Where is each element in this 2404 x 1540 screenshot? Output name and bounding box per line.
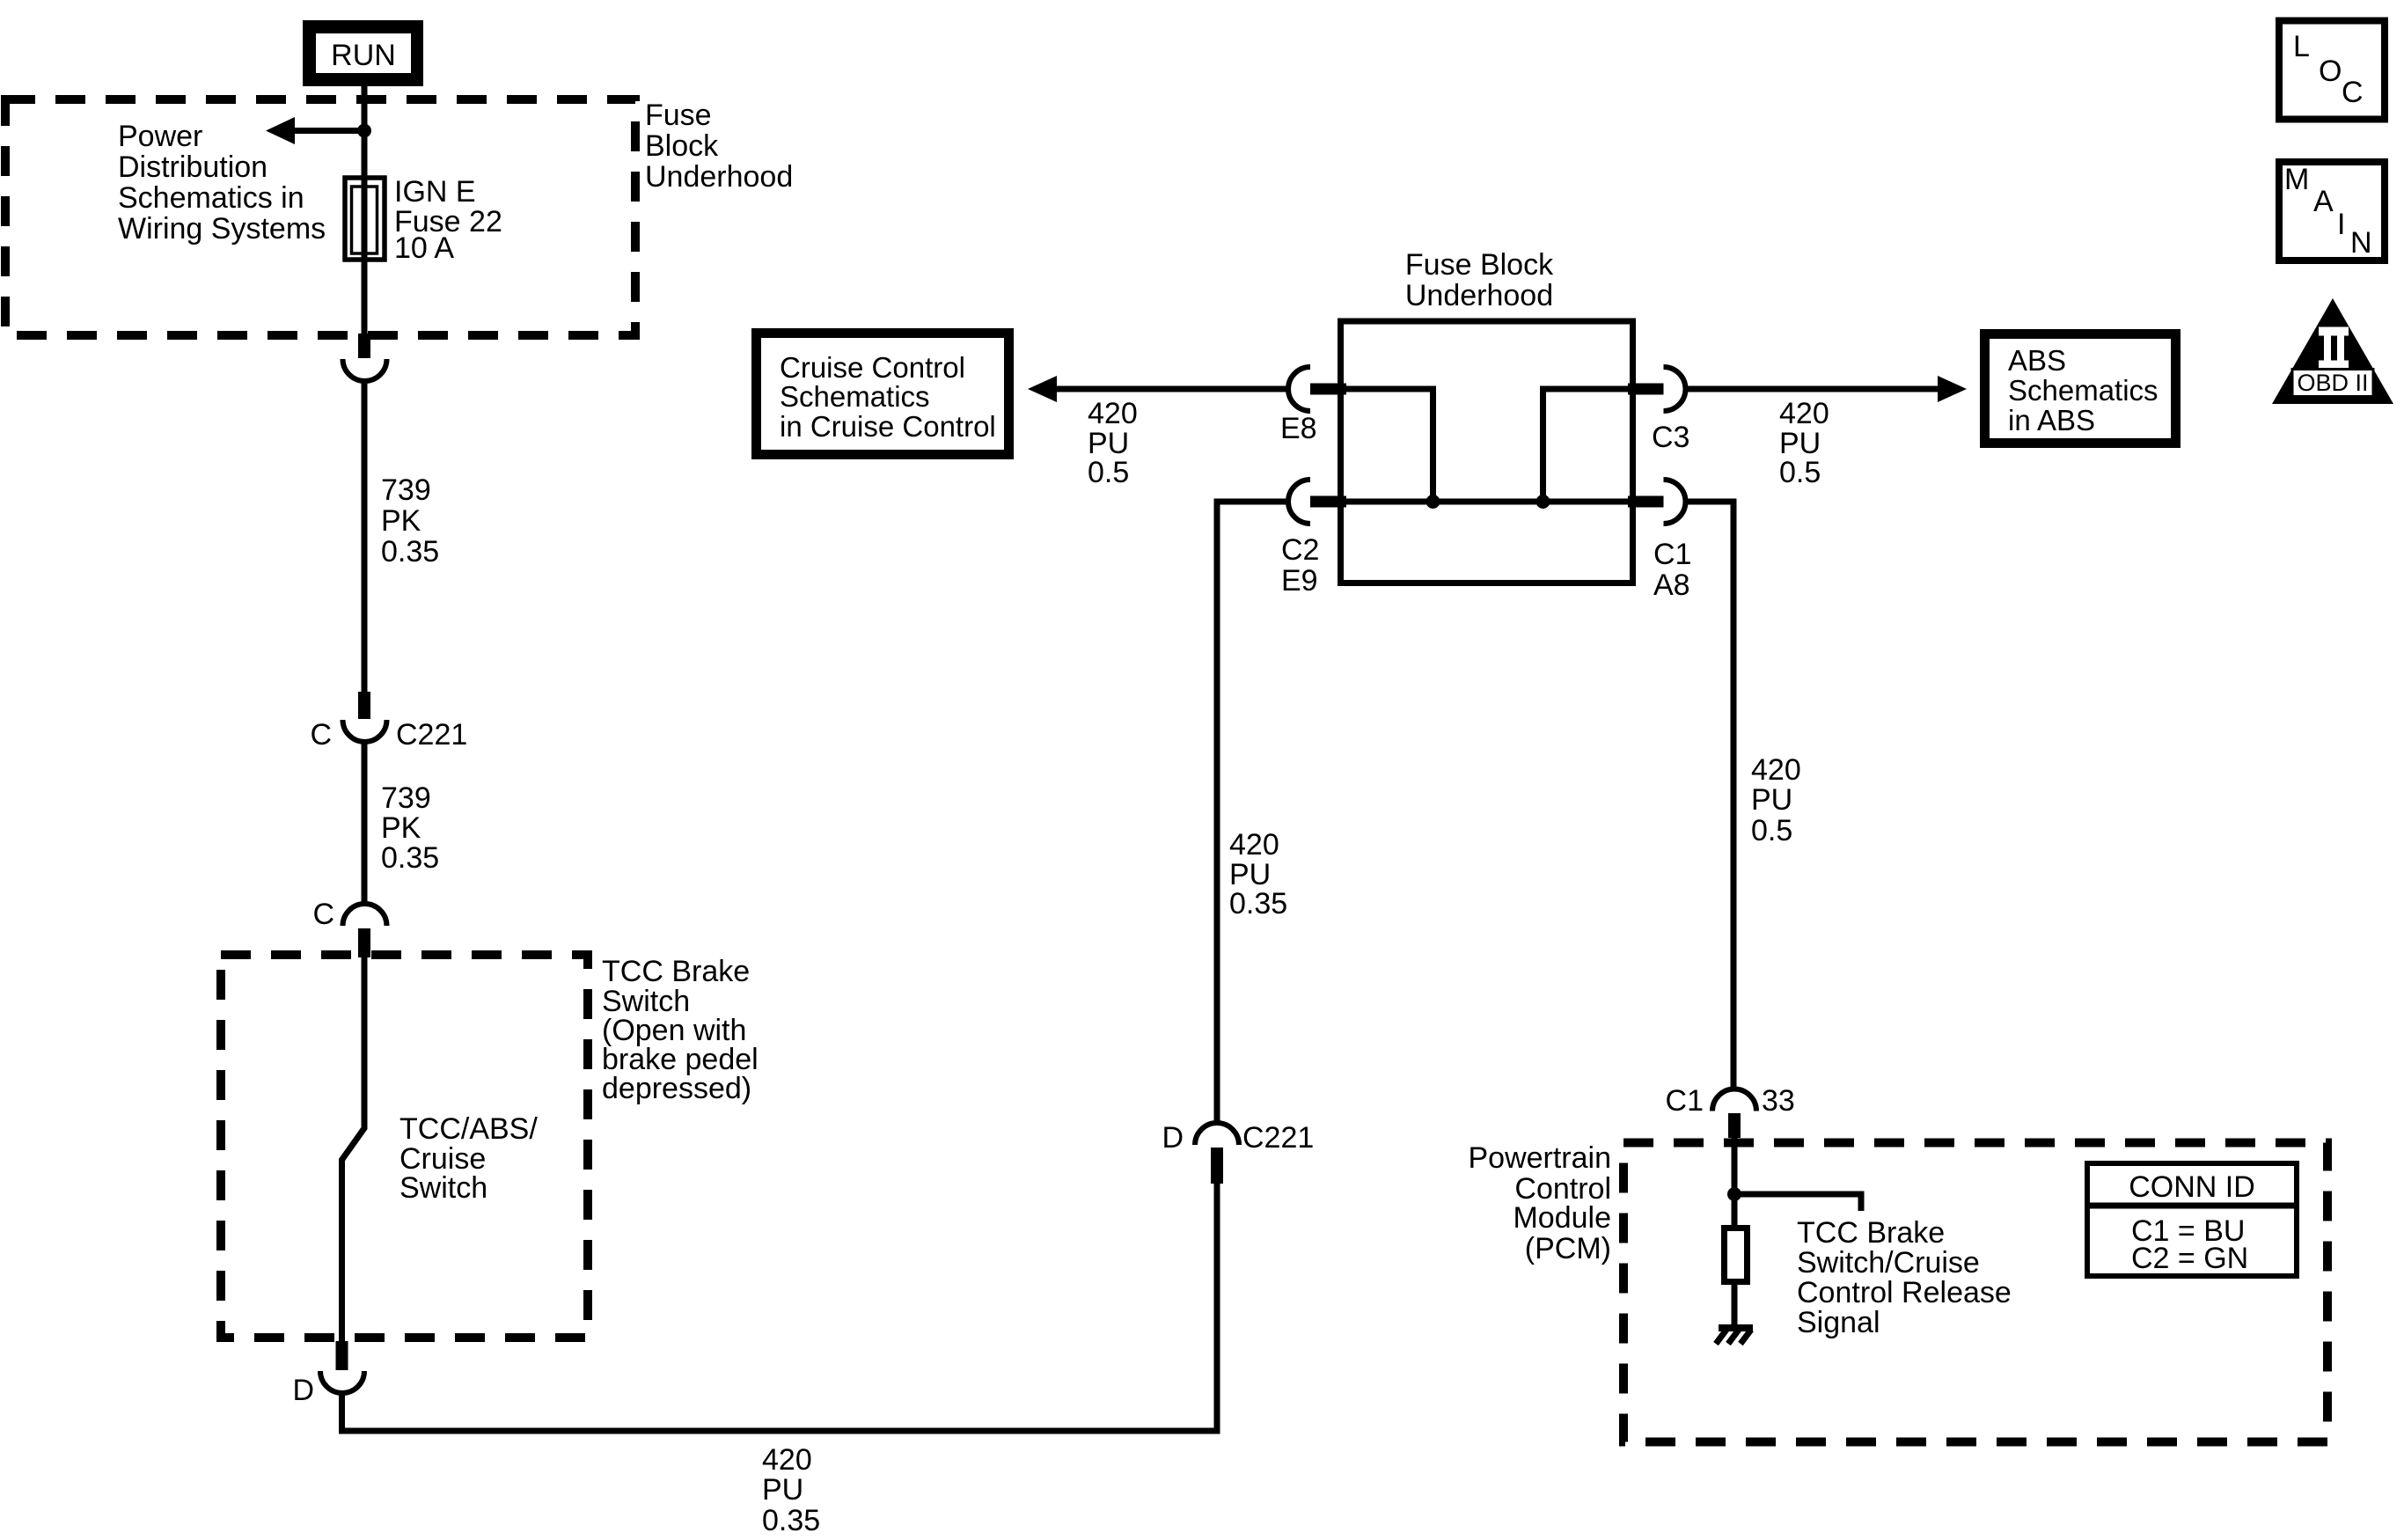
wire [362, 380, 368, 692]
connector C2 E9 [1281, 480, 1346, 598]
wire bottom run to C221 D [342, 1184, 1218, 1431]
connector C1 A8 [1628, 480, 1691, 602]
svg-text:33: 33 [1762, 1084, 1795, 1118]
svg-text:C: C [310, 718, 332, 752]
junction node [357, 124, 371, 138]
junction node [1727, 1187, 1741, 1201]
ignition switch RUN box [303, 20, 423, 86]
svg-text:D: D [1162, 1121, 1184, 1155]
svg-text:E8: E8 [1280, 412, 1317, 445]
Cruise Control Schematics box [757, 334, 1009, 455]
internal wire E8 branch [1344, 389, 1433, 502]
OBD II emblem [2272, 298, 2393, 404]
wire arrow to Power Distribution [266, 117, 364, 144]
svg-text:D: D [292, 1374, 314, 1407]
wire resistor to ground [1732, 1285, 1738, 1328]
svg-text:RUN: RUN [331, 39, 396, 72]
junction node [1536, 495, 1550, 509]
svg-text:CONN ID: CONN ID [2129, 1170, 2255, 1204]
wire [362, 742, 368, 905]
svg-text:C3: C3 [1652, 421, 1689, 454]
svg-text:C221: C221 [1242, 1121, 1314, 1155]
ground (chassis) [1716, 1328, 1753, 1344]
svg-text:M: M [2284, 163, 2309, 196]
svg-text:C1 = BUC2 = GN: C1 = BUC2 = GN [2131, 1214, 2248, 1275]
dashed box: Powertrain Control Module (PCM) [1623, 1143, 2327, 1442]
junction node [1426, 495, 1440, 509]
wire arrow to Cruise Control Schematics [1028, 376, 1288, 402]
CONN ID table [2087, 1163, 2297, 1276]
wire from C1 down to PCM [1686, 502, 1734, 1091]
switch blade TCC/ABS/Cruise Switch [342, 957, 365, 1342]
MAIN reference box [2279, 162, 2385, 260]
svg-text:C2E9: C2E9 [1281, 533, 1319, 598]
connector C221 pin D (middle column) [1162, 1121, 1314, 1184]
internal bus wire C2 to C1 [1344, 499, 1630, 505]
svg-text:C1A8: C1A8 [1653, 538, 1691, 602]
wire from RUN through fuse [362, 86, 368, 334]
connector (fuse block output, below dashed box) [343, 334, 387, 381]
svg-text:C: C [312, 898, 334, 931]
connector pin C (TCC brake switch input) [312, 898, 386, 957]
wire into PCM [1732, 1138, 1738, 1225]
svg-text:C: C [2342, 76, 2364, 109]
fuse block underhood box (center) [1341, 321, 1633, 583]
connector E8 [1280, 367, 1346, 445]
dashed box: Fuse Block Underhood (top left) [5, 99, 635, 335]
svg-text:OBD II: OBD II [2297, 370, 2368, 396]
connector C3 [1628, 367, 1689, 454]
svg-text:L: L [2293, 30, 2310, 63]
connector pin D (switch output) [292, 1341, 364, 1407]
wire signal flag [1734, 1194, 1861, 1211]
svg-text:A: A [2313, 185, 2334, 218]
LOC reference box [2279, 21, 2385, 120]
svg-text:C1: C1 [1666, 1084, 1704, 1118]
connector C1 pin 33 [1666, 1084, 1795, 1138]
svg-text:TCC BrakeSwitch(Open withbrake: TCC BrakeSwitch(Open withbrake pedeldepr… [602, 955, 759, 1105]
svg-text:I: I [2337, 208, 2345, 241]
wire arrow to ABS Schematics [1686, 376, 1968, 402]
resistor (PCM internal) [1725, 1228, 1748, 1282]
wire middle column up to C2 [1217, 502, 1288, 1124]
svg-text:C221: C221 [396, 718, 467, 752]
internal wire C3 branch [1543, 389, 1631, 502]
connector C221 (pin C) [310, 692, 467, 752]
ABS Schematics box [1985, 334, 2176, 444]
dashed box: TCC Brake Switch [221, 955, 588, 1338]
fuse IGN E Fuse 22 10 A [345, 178, 385, 260]
svg-text:O: O [2319, 55, 2342, 88]
svg-text:Fuse BlockUnderhood: Fuse BlockUnderhood [1405, 248, 1554, 312]
svg-text:N: N [2350, 226, 2372, 260]
